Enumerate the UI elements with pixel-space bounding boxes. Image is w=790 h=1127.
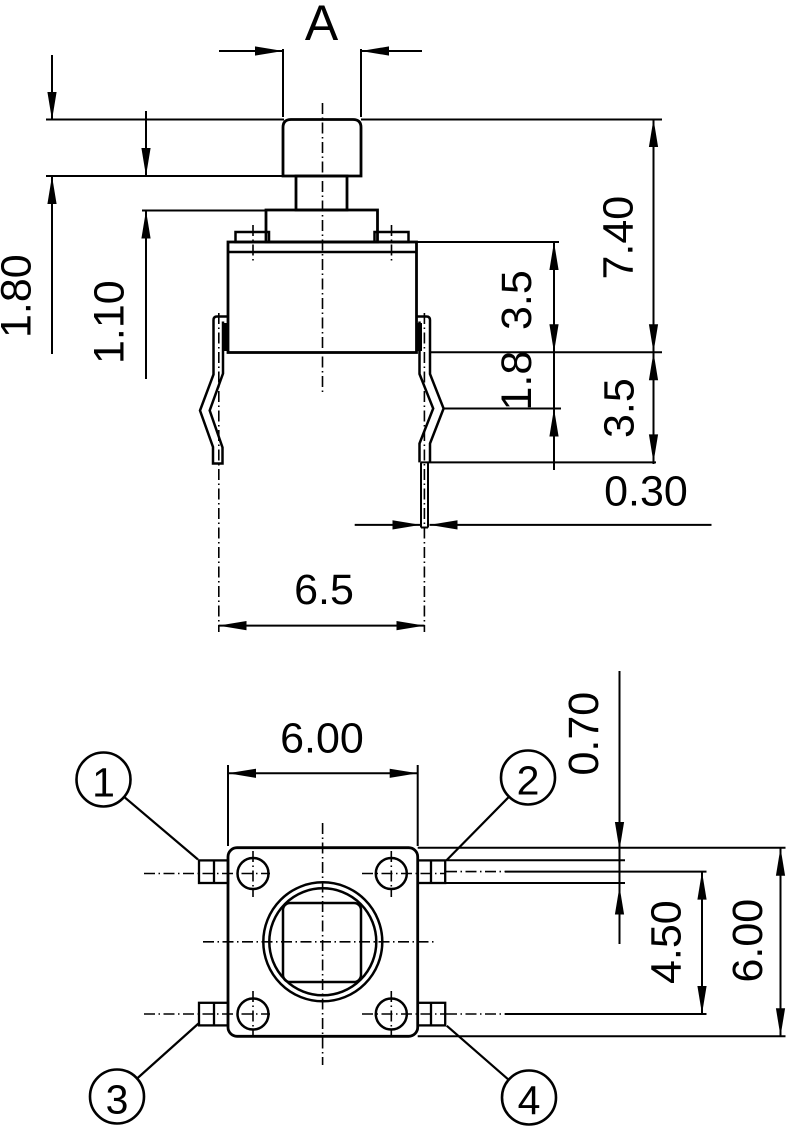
dimension A extension lines <box>282 49 284 117</box>
flange <box>266 210 378 242</box>
extension line pin row bottom center <box>446 1013 505 1015</box>
extension line flange top left <box>142 210 266 212</box>
extension line body bottom right <box>418 1035 786 1037</box>
right leg <box>417 317 444 463</box>
callout circle 2 <box>501 751 555 805</box>
svg-text:3.5: 3.5 <box>596 378 644 438</box>
left leg <box>200 317 228 464</box>
right tab centerline <box>391 225 393 261</box>
corner hole top-left <box>238 858 269 889</box>
leader line 1 <box>124 797 198 860</box>
center square hole <box>283 903 361 982</box>
pin 3 bottom-left <box>199 1003 228 1026</box>
extension line leg kink <box>444 408 561 410</box>
extension line cap bottom left <box>46 175 297 177</box>
svg-text:6.00: 6.00 <box>280 714 364 762</box>
svg-text:A: A <box>305 0 339 51</box>
extension line cap top left <box>46 119 284 121</box>
svg-text:1: 1 <box>92 760 115 806</box>
svg-text:1.80: 1.80 <box>0 254 41 338</box>
svg-text:0.70: 0.70 <box>560 692 608 776</box>
plunger cap <box>283 120 361 177</box>
pin 4 bottom-right <box>418 1003 446 1026</box>
left tab centerline <box>252 225 254 261</box>
hole centerline cross bottom-left <box>144 1013 270 1015</box>
corner hole bottom-left <box>238 999 269 1030</box>
switch body <box>228 242 417 353</box>
callout circle 4 <box>502 1071 556 1125</box>
pin 1 top-left <box>199 860 228 883</box>
left leg body contact bar <box>222 323 229 351</box>
left leg centerline <box>218 313 220 632</box>
top view vertical centerline <box>322 823 324 1065</box>
left index tab <box>236 232 270 242</box>
top view body outline <box>228 848 418 1037</box>
pin 2 top-right <box>418 860 446 883</box>
plunger neck <box>296 176 347 210</box>
leader line 2 <box>447 797 509 860</box>
svg-text:6.5: 6.5 <box>294 566 354 614</box>
boss outer circle <box>263 882 382 1001</box>
right leg solder tip <box>421 462 428 527</box>
leader line 3 <box>137 1024 198 1079</box>
extension line cap top right <box>361 119 662 121</box>
svg-text:4.50: 4.50 <box>643 900 691 984</box>
leader line 4 <box>447 1026 509 1080</box>
body top plate line <box>228 251 417 254</box>
svg-text:3: 3 <box>106 1077 129 1123</box>
svg-text:4: 4 <box>518 1078 541 1124</box>
svg-text:0.30: 0.30 <box>604 468 688 516</box>
hole centerline cross bottom-right <box>362 1013 446 1015</box>
boss inner circle <box>269 888 376 995</box>
svg-text:6.00: 6.00 <box>724 899 772 983</box>
corner hole bottom-right <box>376 999 407 1030</box>
callout circle 1 <box>77 753 131 807</box>
extension line leg tip level <box>421 461 656 463</box>
svg-text:7.40: 7.40 <box>595 196 643 280</box>
right leg centerline <box>423 313 425 632</box>
extension line body bottom right <box>430 351 662 353</box>
hole centerline cross top-right <box>362 873 446 875</box>
hole centerline cross top-left <box>144 873 270 875</box>
callout circle 3 <box>90 1070 144 1124</box>
top view horizontal centerline <box>203 941 437 943</box>
extension line body top right <box>418 847 786 849</box>
right index tab <box>375 232 409 242</box>
svg-text:2: 2 <box>517 758 540 804</box>
side view centerline <box>322 103 324 395</box>
svg-text:1.10: 1.10 <box>86 280 134 364</box>
svg-text:3.5: 3.5 <box>493 270 541 330</box>
extension line pin row top center <box>446 871 505 873</box>
dimension A lines <box>219 50 283 52</box>
svg-text:1.8: 1.8 <box>493 351 541 411</box>
corner hole top-right <box>376 858 407 889</box>
right leg body contact bar <box>416 323 423 351</box>
extension line plate top right <box>417 241 560 243</box>
